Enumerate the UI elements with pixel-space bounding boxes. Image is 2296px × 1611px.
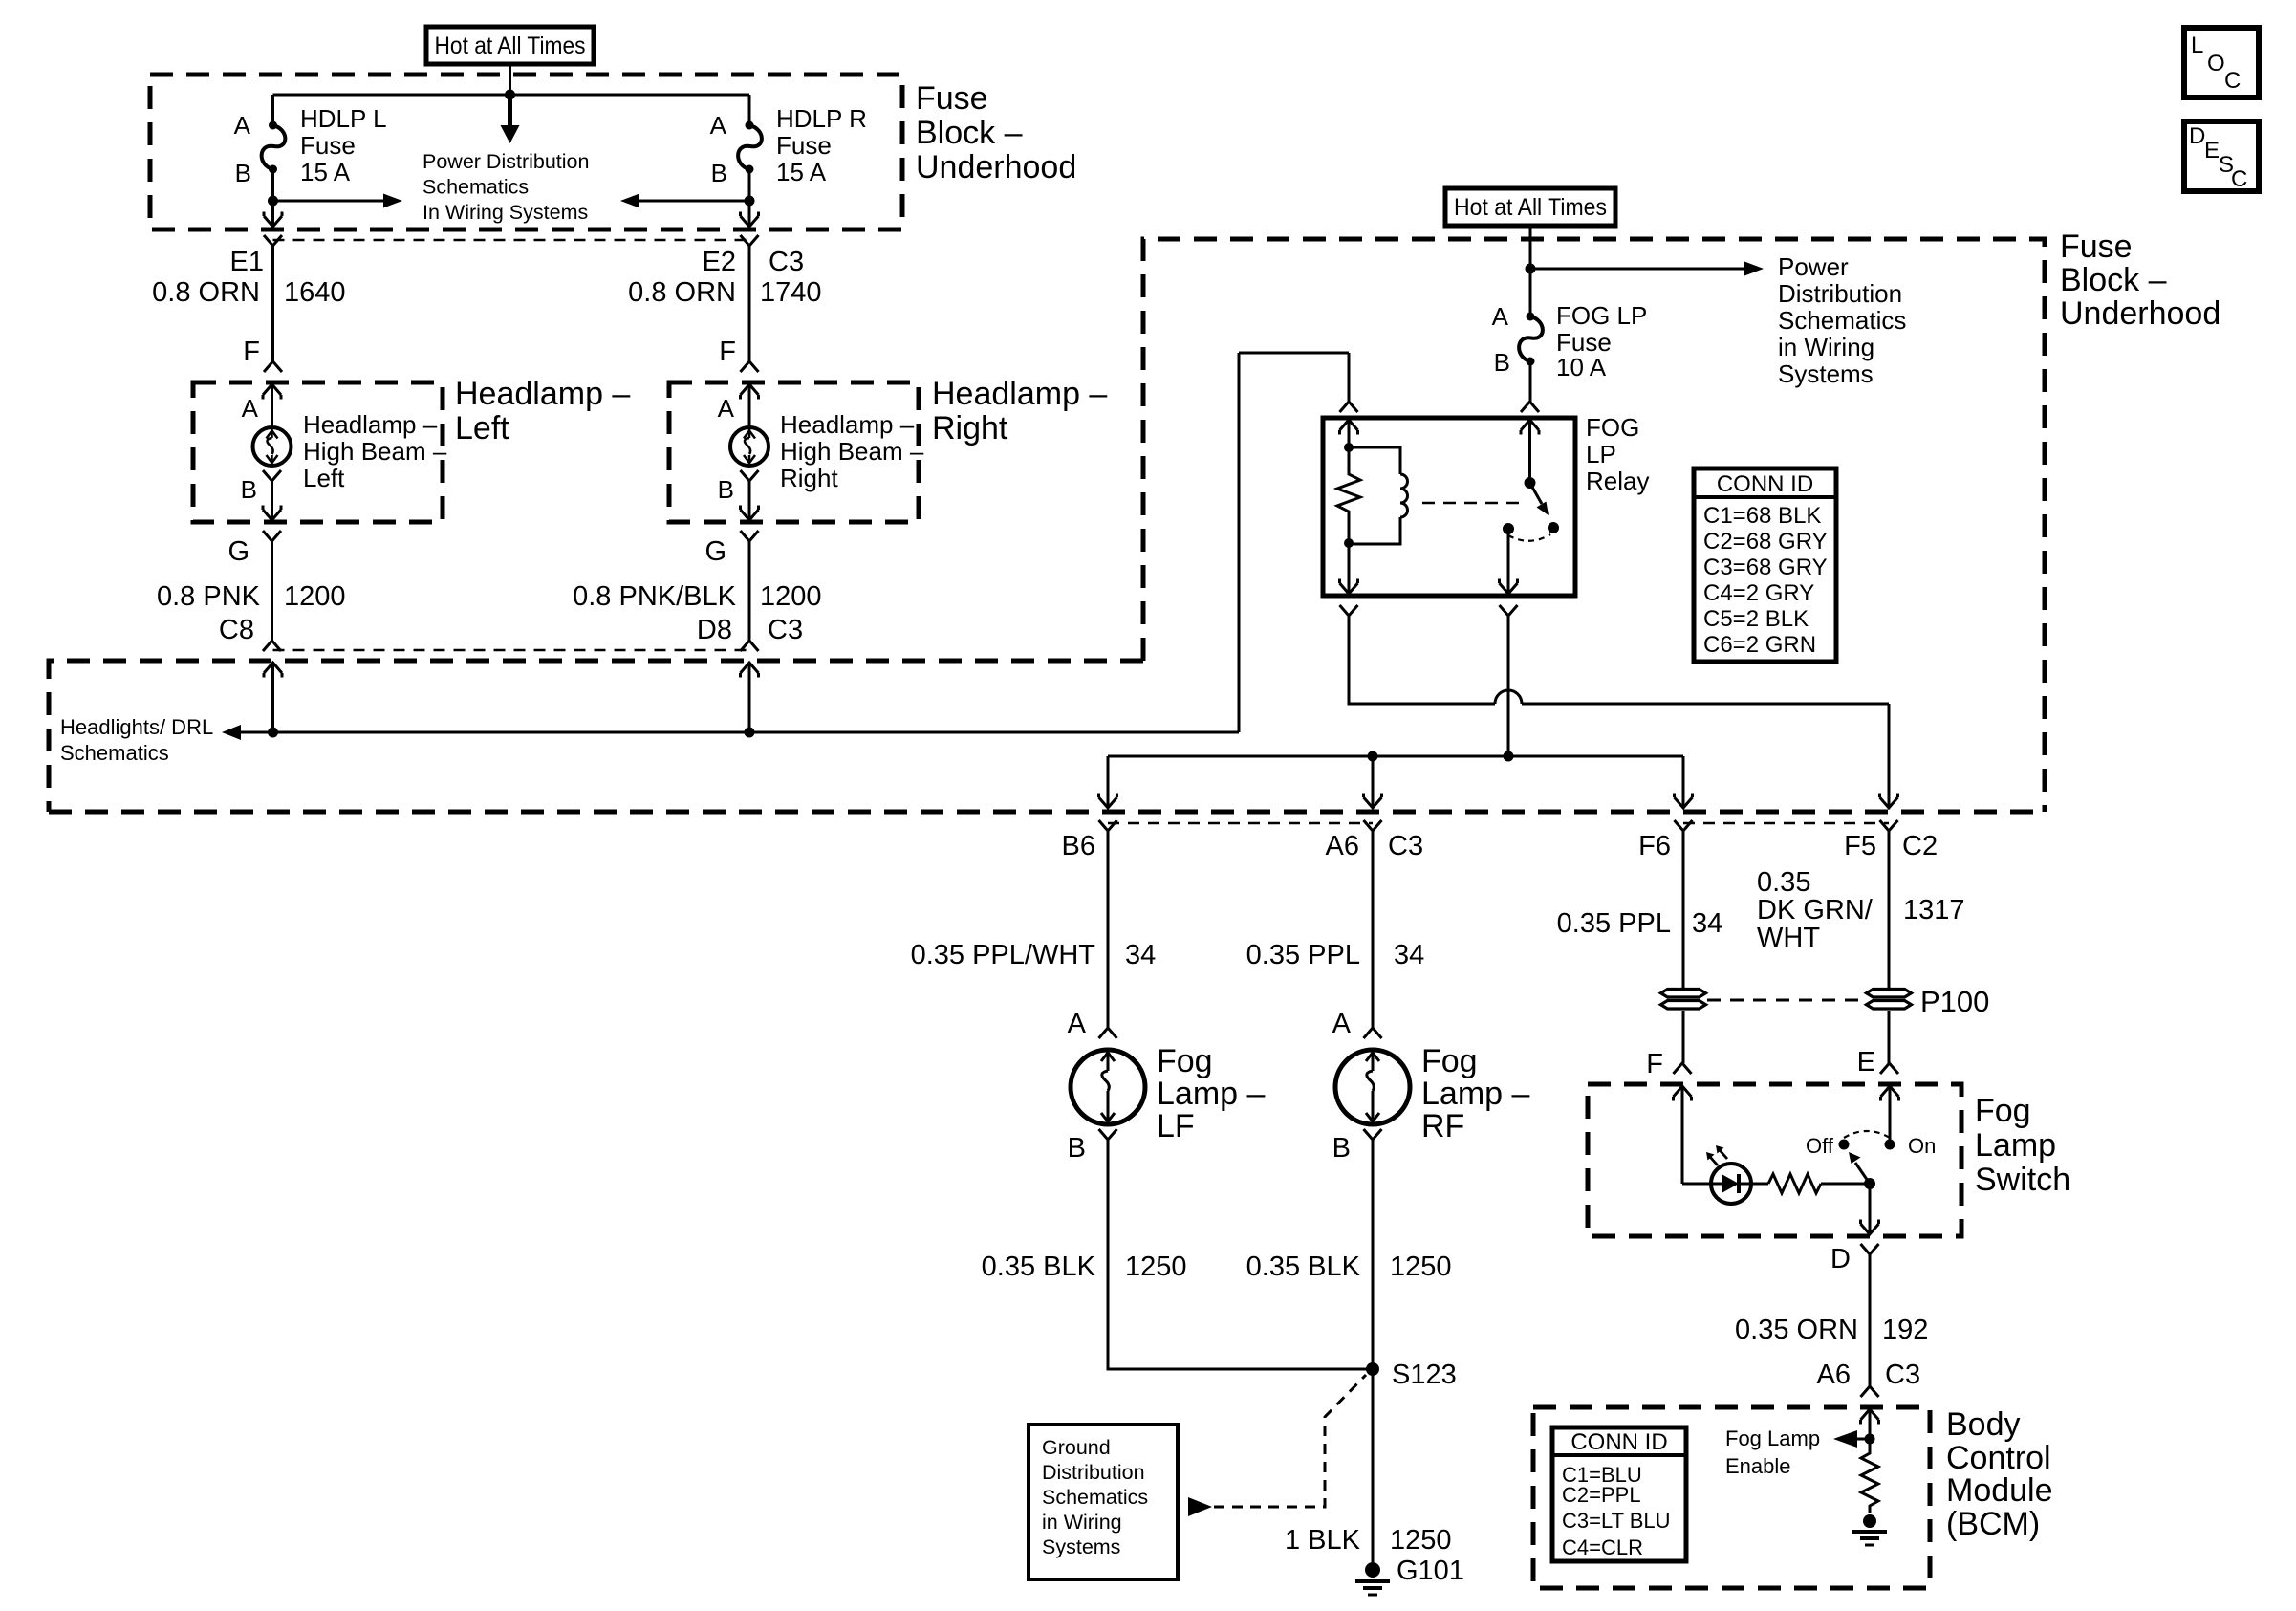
svg-text:C2=PPL: C2=PPL [1562, 1483, 1641, 1507]
wire to LED [1682, 1183, 1711, 1186]
svg-text:Left: Left [303, 464, 345, 492]
power label box: Hot at All Times (right) [1445, 188, 1615, 226]
relay switch common terminal (top right) [1521, 420, 1539, 435]
svg-text:Hot at All Times: Hot at All Times [435, 33, 586, 59]
svg-text:0.35 BLK: 0.35 BLK [1246, 1252, 1361, 1282]
relay coil L1 [1349, 447, 1400, 474]
svg-text:0.35 BLK: 0.35 BLK [982, 1252, 1096, 1282]
svg-text:A6: A6 [1326, 831, 1359, 861]
svg-text:Schematics: Schematics [1778, 306, 1906, 335]
wire 1200: 0.8 PNK/BLK [748, 541, 751, 641]
svg-text:Fog: Fog [1157, 1043, 1213, 1079]
svg-text:34: 34 [1692, 908, 1722, 939]
note box: Ground Distribution Schematics in Wiring Systems [1029, 1425, 1178, 1579]
svg-text:0.35 ORN: 0.35 ORN [1735, 1315, 1858, 1345]
svg-text:Fog Lamp: Fog Lamp [1725, 1426, 1820, 1450]
dashed reference route to S123 [1214, 1375, 1366, 1507]
svg-text:C4=2 GRY: C4=2 GRY [1703, 580, 1814, 606]
node: DRL line right headlamp junction [745, 728, 755, 738]
svg-text:E: E [1857, 1047, 1875, 1078]
relay switch arm with arrow [1530, 483, 1543, 504]
connector E1 [264, 235, 282, 246]
pin E wire from On contact up [1889, 1086, 1892, 1144]
svg-text:15 A: 15 A [300, 158, 351, 186]
svg-text:1 BLK: 1 BLK [1285, 1525, 1361, 1556]
svg-text:B6: B6 [1062, 831, 1095, 861]
svg-text:D8: D8 [697, 615, 732, 645]
svg-text:C6=2 GRN: C6=2 GRN [1703, 632, 1816, 658]
svg-text:B: B [718, 475, 734, 504]
pin A connector fog lamp LF [1099, 1028, 1117, 1038]
pin F arrow into switch [1674, 1086, 1692, 1101]
svg-text:Headlamp –: Headlamp – [780, 410, 915, 439]
pin arrow into BCM [1861, 1409, 1879, 1425]
wire: DRL feed down to relay coil input [1348, 353, 1351, 402]
svg-text:D: D [2189, 123, 2205, 149]
node: relay switch pivot [1525, 477, 1536, 489]
svg-text:In Wiring Systems: In Wiring Systems [422, 201, 588, 224]
table: CONN ID (fuse block) [1694, 468, 1836, 662]
node: junction above FOG LP fuse [1526, 264, 1536, 274]
connector A6 / C3 [1364, 820, 1382, 831]
svg-text:Fuse: Fuse [916, 80, 988, 117]
svg-text:C: C [2224, 68, 2241, 94]
svg-text:Block –: Block – [916, 115, 1023, 151]
svg-text:LF: LF [1157, 1108, 1195, 1144]
pin D wire down from junction [1869, 1184, 1872, 1232]
svg-text:HDLP L: HDLP L [300, 104, 387, 133]
svg-text:C3: C3 [769, 247, 804, 277]
wire: FOG LP fuse output to relay [1529, 361, 1532, 402]
svg-text:Right: Right [932, 410, 1008, 446]
pin B connector headlamp left [263, 470, 281, 481]
pin B connector fog lamp LF [1099, 1129, 1117, 1140]
svg-text:34: 34 [1394, 940, 1424, 970]
svg-text:Fog: Fog [1975, 1093, 2031, 1129]
svg-text:C5=2 BLK: C5=2 BLK [1703, 606, 1809, 632]
wire: F6 drop [1682, 756, 1685, 806]
wire: relay output down [1507, 529, 1510, 592]
wire: arrow to power distribution note (right) [1530, 268, 1745, 271]
svg-text:1250: 1250 [1390, 1525, 1452, 1556]
svg-text:Headlights/ DRL: Headlights/ DRL [60, 715, 213, 739]
svg-text:0.35 PPL/WHT: 0.35 PPL/WHT [911, 940, 1096, 970]
connector row dashed link F6-F5 [1683, 822, 1889, 825]
svg-text:F6: F6 [1638, 831, 1671, 861]
node: junction below HDLP L fuse [268, 196, 278, 207]
connector E2 / C3 [741, 235, 759, 246]
svg-text:Schematics: Schematics [422, 176, 529, 199]
svg-text:1740: 1740 [760, 277, 822, 308]
table: CONN ID (BCM) [1552, 1427, 1686, 1561]
connector D8 / C3 [741, 641, 759, 651]
svg-text:Headlamp –: Headlamp – [455, 376, 630, 412]
LED light arrows [1710, 1157, 1718, 1165]
svg-text:C2=68 GRY: C2=68 GRY [1703, 529, 1828, 555]
svg-text:B: B [1332, 1133, 1351, 1164]
pin A arrow into headlamp right [741, 384, 759, 400]
component box: Headlights/DRL Schematics (dashed) [49, 661, 1143, 812]
svg-text:L: L [2191, 33, 2203, 58]
node: bus junction under Hot box [505, 90, 515, 100]
svg-text:0.35: 0.35 [1757, 867, 1810, 898]
svg-text:E: E [2204, 138, 2220, 163]
svg-text:34: 34 [1125, 940, 1156, 970]
wire: DRL feed line with arrow to Headlights/DRL schematics [240, 731, 1239, 734]
svg-text:Fuse: Fuse [776, 131, 832, 160]
connector F5 / C2 [1880, 820, 1898, 831]
svg-text:Module: Module [1946, 1472, 2053, 1509]
wire resistor to switch junction [1821, 1183, 1870, 1186]
svg-text:Lamp –: Lamp – [1157, 1076, 1265, 1112]
svg-text:E1: E1 [230, 247, 264, 277]
svg-text:0.8 ORN: 0.8 ORN [628, 277, 736, 308]
svg-text:Underhood: Underhood [2060, 295, 2220, 332]
svg-text:in Wiring: in Wiring [1778, 333, 1874, 361]
svg-text:Body: Body [1946, 1406, 2021, 1443]
svg-text:C3: C3 [1885, 1360, 1920, 1390]
svg-text:1200: 1200 [284, 581, 346, 612]
svg-text:B: B [241, 475, 257, 504]
svg-text:Lamp –: Lamp – [1421, 1076, 1529, 1112]
svg-text:0.35 PPL: 0.35 PPL [1557, 908, 1671, 939]
svg-text:CONN ID: CONN ID [1570, 1429, 1667, 1455]
svg-text:1250: 1250 [1125, 1252, 1187, 1282]
connector P100 (E side) [1867, 990, 1912, 998]
svg-text:B: B [235, 159, 251, 187]
node: relay output contact [1503, 523, 1514, 534]
svg-text:G: G [227, 536, 249, 567]
svg-text:(BCM): (BCM) [1946, 1506, 2040, 1542]
connector F6 [1675, 820, 1693, 831]
connector B6 [1099, 820, 1117, 831]
svg-text:Headlamp –: Headlamp – [932, 376, 1107, 412]
svg-text:A: A [242, 394, 259, 423]
svg-text:F: F [1646, 1049, 1663, 1079]
wire 192: 0.35 ORN to BCM [1869, 1254, 1872, 1386]
svg-text:Fuse: Fuse [300, 131, 356, 160]
wire 34: 0.35 PPL/WHT to LF lamp [1107, 831, 1110, 1028]
svg-text:B: B [1494, 348, 1510, 377]
svg-text:C3: C3 [768, 615, 803, 645]
relay coil input terminal (top left) [1340, 402, 1358, 412]
component box: Headlamp - Left (dashed) [193, 382, 443, 522]
svg-text:A: A [718, 394, 735, 423]
power label box: Hot at All Times (left) [426, 27, 594, 64]
component box: Fuse Block - Underhood (right, dashed) [1143, 239, 2045, 812]
svg-text:Enable: Enable [1725, 1454, 1791, 1478]
svg-text:C3=LT BLU: C3=LT BLU [1562, 1509, 1671, 1533]
fuse F2: HDLP R Fuse 15 A [748, 95, 751, 125]
svg-text:1640: 1640 [284, 277, 346, 308]
svg-text:0.8 PNK: 0.8 PNK [157, 581, 261, 612]
svg-text:A: A [710, 111, 727, 140]
svg-text:Hot at All Times: Hot at All Times [1454, 194, 1607, 221]
svg-text:1200: 1200 [760, 581, 822, 612]
svg-text:D: D [1830, 1244, 1851, 1274]
node: A6 drop junction [1368, 751, 1378, 762]
node: relay coil bottom junction [1344, 538, 1354, 548]
svg-text:S123: S123 [1392, 1360, 1457, 1390]
svg-text:A6: A6 [1817, 1360, 1851, 1390]
svg-text:FOG LP: FOG LP [1556, 301, 1647, 330]
svg-text:Schematics: Schematics [1042, 1486, 1148, 1509]
dashed travel arc between relay contacts [1508, 534, 1550, 541]
svg-text:G101: G101 [1397, 1556, 1464, 1586]
BCM internal ground [1863, 1514, 1876, 1528]
connector P100 (F side) [1661, 990, 1706, 998]
lamp: Headlamp High Beam Right [730, 427, 769, 466]
svg-text:Block –: Block – [2060, 262, 2167, 298]
connector row dashed link B6-A6 [1108, 822, 1373, 825]
wire LED to resistor [1751, 1183, 1768, 1186]
pin A connector fog lamp RF [1364, 1028, 1382, 1038]
svg-text:A: A [1492, 302, 1509, 331]
switch arm with arrow toward Off [1855, 1163, 1870, 1184]
node: relay NO contact [1548, 522, 1559, 533]
svg-text:C1=68 BLK: C1=68 BLK [1703, 503, 1821, 529]
svg-text:Control: Control [1946, 1440, 2051, 1476]
svg-text:Lamp: Lamp [1975, 1127, 2056, 1164]
connector row dashed link C8-D8 [273, 649, 750, 652]
wire 1250: 1 BLK to ground [1372, 1369, 1375, 1562]
node: switch output junction [1864, 1178, 1875, 1189]
svg-text:C3: C3 [1388, 831, 1423, 861]
connector row dashed link E1-E2 [273, 239, 750, 242]
svg-text:C3=68 GRY: C3=68 GRY [1703, 555, 1828, 580]
svg-text:Left: Left [455, 410, 509, 446]
svg-text:Switch: Switch [1975, 1162, 2070, 1198]
svg-text:192: 192 [1882, 1315, 1928, 1345]
svg-text:10 A: 10 A [1556, 353, 1607, 381]
svg-text:FOG: FOG [1586, 413, 1639, 442]
svg-text:F: F [243, 337, 260, 367]
resistor in BCM [1861, 1439, 1878, 1513]
svg-text:On: On [1908, 1134, 1936, 1158]
wire from Hot box into fuse block [1529, 226, 1532, 269]
svg-text:A: A [1068, 1009, 1087, 1039]
svg-text:Off: Off [1806, 1134, 1834, 1158]
svg-text:Power: Power [1778, 252, 1849, 281]
svg-text:High Beam –: High Beam – [303, 437, 447, 466]
svg-text:C4=CLR: C4=CLR [1562, 1535, 1643, 1559]
svg-text:Schematics: Schematics [60, 741, 169, 765]
svg-text:CONN ID: CONN ID [1717, 471, 1813, 497]
svg-text:0.8 ORN: 0.8 ORN [152, 277, 260, 308]
svg-text:RF: RF [1421, 1108, 1464, 1144]
pin A arrow into headlamp left [263, 384, 281, 400]
fuse F3: FOG LP Fuse 10 A [1529, 269, 1532, 316]
svg-text:C2: C2 [1902, 831, 1938, 861]
node: relay coil top junction [1344, 443, 1354, 452]
svg-text:G: G [704, 536, 726, 567]
node: DRL line left headlamp junction [268, 728, 278, 738]
wire 1640: 0.8 ORN from E1 to F [271, 246, 274, 361]
node S123: splice [1366, 1362, 1379, 1376]
wire from Hot at All Times to bus [509, 64, 511, 95]
wire: relay coil low side to F5 drop [1349, 616, 1495, 704]
fuse F1: HDLP L Fuse 15 A [271, 95, 274, 125]
wire: DRL feed rising to relay [1238, 353, 1241, 732]
pin B connector fog lamp RF [1364, 1129, 1382, 1140]
svg-text:E2: E2 [703, 247, 736, 277]
svg-text:Headlamp –: Headlamp – [303, 410, 438, 439]
legend box DESC [2184, 121, 2259, 191]
svg-text:A: A [1332, 1009, 1352, 1039]
ground G101 [1365, 1562, 1380, 1578]
relay bottom-left terminal leaving box [1340, 605, 1358, 616]
relay bottom-right terminal leaving box [1500, 605, 1518, 616]
wire: fuse block feed bus [273, 94, 750, 97]
lamp: Fog Lamp - RF [1335, 1050, 1410, 1124]
wire 34: 0.35 PPL to RF lamp [1372, 831, 1375, 1028]
component box: Fog Lamp Switch (dashed) [1588, 1084, 1961, 1236]
wire: fog lamp distribution line [1108, 755, 1683, 758]
svg-text:HDLP R: HDLP R [776, 104, 867, 133]
node: junction below HDLP R fuse [745, 196, 755, 207]
svg-text:15 A: 15 A [776, 158, 827, 186]
wire: relay output to distribution line [1507, 616, 1510, 756]
svg-text:A: A [234, 111, 251, 140]
svg-text:WHT: WHT [1757, 923, 1820, 953]
connector D below switch [1861, 1244, 1879, 1254]
LED indicator lamp in switch [1711, 1164, 1751, 1204]
arrow from ground note box [1188, 1497, 1212, 1516]
svg-text:C: C [2231, 166, 2247, 192]
wire from P100 to switch pin E [1888, 1011, 1891, 1063]
wire 34: 0.35 PPL to P100 (F6) [1682, 831, 1685, 991]
wire: B6 drop [1107, 756, 1110, 806]
svg-text:C8: C8 [219, 615, 254, 645]
svg-text:Systems: Systems [1042, 1535, 1120, 1558]
svg-text:in Wiring: in Wiring [1042, 1511, 1122, 1534]
svg-text:P100: P100 [1920, 985, 1989, 1018]
svg-text:Ground: Ground [1042, 1436, 1111, 1459]
resistor in relay (parallel with coil) [1337, 447, 1360, 543]
wire into DRL box (right) [741, 663, 759, 678]
node: Off contact [1839, 1140, 1850, 1150]
dashed link between P100 halves [1707, 999, 1865, 1002]
svg-text:Fuse: Fuse [2060, 229, 2133, 265]
svg-text:Systems: Systems [1778, 359, 1874, 388]
svg-text:Fog: Fog [1421, 1043, 1478, 1079]
wire 1200: 0.8 PNK [271, 541, 273, 641]
lamp: Headlamp High Beam Left [253, 427, 292, 466]
svg-text:F: F [719, 337, 736, 367]
connector A6 / C3 at BCM [1861, 1386, 1879, 1397]
connector F (right headlamp) [741, 361, 759, 372]
wire 1317: 0.35 DK GRN/WHT to P100 (F5) [1888, 831, 1891, 991]
svg-text:1317: 1317 [1903, 895, 1965, 925]
wire: HDLP R fuse output crossing fuse block edge [748, 201, 751, 225]
pin B connector headlamp right [741, 470, 759, 481]
dashed actuation link from coil to switch [1422, 502, 1522, 505]
shared dashed bottom edge [49, 810, 2045, 815]
svg-text:B: B [1068, 1133, 1086, 1164]
svg-text:Distribution: Distribution [1778, 279, 1902, 308]
component box: Fuse Block - Underhood (left, dashed) [150, 75, 902, 229]
node: BCM input junction [1865, 1434, 1875, 1445]
svg-text:0.8 PNK/BLK: 0.8 PNK/BLK [573, 581, 737, 612]
connector C8 [263, 641, 281, 651]
wire 1250: 0.35 BLK from LF to S123 [1108, 1140, 1373, 1369]
node: On contact [1885, 1140, 1895, 1150]
svg-text:Relay: Relay [1586, 467, 1649, 495]
connector F (left headlamp) [264, 361, 282, 372]
wire: arrow to power distribution (left fuse) [273, 200, 385, 203]
connector G (left) [263, 531, 281, 541]
svg-text:1250: 1250 [1390, 1252, 1452, 1282]
svg-text:F5: F5 [1844, 831, 1876, 861]
component box: Headlamp - Right (dashed) [669, 382, 919, 522]
svg-text:Underhood: Underhood [916, 149, 1076, 185]
dashed travel arc Off-On [1844, 1131, 1890, 1138]
arrow: Fog Lamp Enable signal [1857, 1438, 1870, 1441]
svg-text:Power Distribution: Power Distribution [422, 150, 589, 173]
svg-text:O: O [2207, 51, 2225, 76]
svg-text:LP: LP [1586, 440, 1616, 468]
relay K1: FOG LP Relay box [1323, 418, 1575, 596]
svg-text:Distribution: Distribution [1042, 1461, 1145, 1484]
wire: HDLP L fuse output crossing fuse block edge [271, 201, 274, 225]
node: relay output junction [1504, 751, 1514, 762]
component box: Body Control Module BCM (dashed) [1533, 1407, 1930, 1588]
arrow: thick feed arrow down to note text [508, 95, 512, 126]
wire: A6 drop [1372, 756, 1375, 806]
wire 1250: 0.35 BLK from RF to S123 [1372, 1140, 1375, 1369]
svg-text:DK GRN/: DK GRN/ [1757, 895, 1874, 925]
svg-text:Right: Right [780, 464, 838, 492]
wire 1740: 0.8 ORN from E2 to F [748, 246, 751, 361]
svg-text:B: B [711, 159, 727, 187]
svg-text:0.35 PPL: 0.35 PPL [1246, 940, 1360, 970]
wire: arrow to power distribution (right fuse) [639, 200, 749, 203]
connector G (right) [741, 531, 759, 541]
svg-text:High Beam –: High Beam – [780, 437, 924, 466]
wire from P100 to switch pin F [1682, 1011, 1685, 1063]
resistor in switch [1768, 1174, 1821, 1193]
legend box LOC [2184, 28, 2259, 98]
lamp: Fog Lamp - LF [1071, 1050, 1145, 1124]
wire into DRL box (left) [264, 663, 282, 678]
